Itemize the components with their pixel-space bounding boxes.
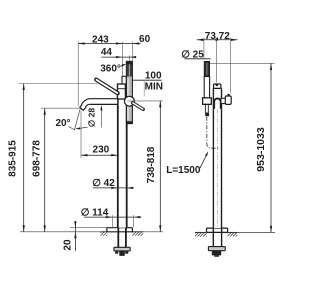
dim 20 deg spout angle xyxy=(74,107,80,130)
spout (left view) xyxy=(80,99,118,111)
joystick lever handle (left view) xyxy=(96,80,118,94)
riser column (right view) xyxy=(213,88,221,228)
mixer cartridge housing (left view) xyxy=(122,76,126,84)
floor hatching right of flange (left view) xyxy=(132,232,143,236)
svg-text:20°: 20° xyxy=(55,118,70,129)
extension lines right dims xyxy=(203,38,205,59)
svg-text:20: 20 xyxy=(62,239,73,251)
floor line (right view) xyxy=(237,231,275,233)
locknut below floor (left view) xyxy=(114,247,130,251)
extension lines top dims xyxy=(77,42,79,106)
svg-text:230: 230 xyxy=(93,144,110,155)
svg-text:∅ 42: ∅ 42 xyxy=(92,178,115,189)
dim dia 42 xyxy=(93,187,134,189)
dim dia 114 xyxy=(84,216,141,218)
dim 230 xyxy=(81,154,118,156)
column centerline (right view) xyxy=(216,109,218,228)
svg-text:∅ 114: ∅ 114 xyxy=(81,208,109,219)
svg-text:360°: 360° xyxy=(100,63,121,74)
bracket arm (right view) xyxy=(221,98,227,103)
svg-text:73,72: 73,72 xyxy=(205,31,230,42)
base flange escutcheon (right view) xyxy=(207,228,228,232)
floor hatching right of flange (right view) xyxy=(228,232,238,236)
threaded tailpiece (right view) xyxy=(212,251,221,256)
column below floor (left view) xyxy=(117,228,119,248)
svg-text:60: 60 xyxy=(139,34,151,45)
svg-text:698-778: 698-778 xyxy=(31,140,42,177)
swivel hub (left view) xyxy=(124,96,134,106)
base flange escutcheon (left view) xyxy=(107,228,133,232)
dim 953-1033 xyxy=(210,62,275,64)
svg-text:953-1033: 953-1033 xyxy=(255,127,267,172)
locknut below floor (right view) xyxy=(208,247,225,251)
svg-text:∅ 28: ∅ 28 xyxy=(87,108,97,127)
svg-text:835-915: 835-915 xyxy=(8,140,19,177)
dim 44 xyxy=(101,56,136,58)
floor hatching left of flange (left view) xyxy=(101,232,107,236)
svg-text:44: 44 xyxy=(101,47,113,58)
svg-text:243: 243 xyxy=(92,34,109,45)
dim 73,72 (top right) xyxy=(197,39,238,41)
flexible hose dashed (right view) xyxy=(207,117,220,149)
hand shower on holder (left view, front) xyxy=(126,61,132,123)
dim 698-778 xyxy=(41,107,80,109)
dim 20 flange height xyxy=(70,227,107,229)
threaded tailpiece (left view) xyxy=(115,251,118,254)
svg-text:100: 100 xyxy=(145,70,162,81)
dim 835-915 xyxy=(19,83,99,85)
riser column (left view) xyxy=(118,84,127,228)
dim 243 (top) xyxy=(78,43,141,45)
floor line (left view) xyxy=(20,231,101,233)
hand shower tail (right view) xyxy=(205,105,208,114)
shower holder clamp (right view) xyxy=(203,98,212,105)
hand shower (right view, side) xyxy=(204,61,209,76)
svg-text:L=1500: L=1500 xyxy=(166,165,201,176)
handle stub on column top (right view) xyxy=(214,84,221,88)
svg-text:MIN: MIN xyxy=(145,81,163,92)
bracket knob (right view) xyxy=(225,96,231,104)
diverter lever (left view) xyxy=(133,103,144,110)
floor hatching left of flange (right view) xyxy=(195,232,207,236)
svg-text:738-818: 738-818 xyxy=(146,146,157,183)
dim 60 (top) xyxy=(133,42,140,44)
dim 738-818 xyxy=(127,100,163,102)
holder bracket hub on column (right view) xyxy=(214,98,221,108)
column below floor (right view) xyxy=(212,228,214,247)
